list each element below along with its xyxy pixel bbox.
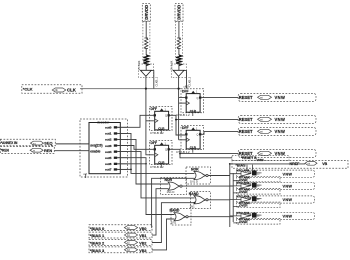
svg-text:DRVDD: DRVDD [144,5,149,20]
svg-text:clk: clk [55,88,59,92]
wire column2 to buffer [178,65,180,71]
resistor R4 (column2 dark zigzag) [176,55,182,66]
junction column2 on clock bus [178,88,180,90]
wire bias row lead-in [230,163,252,165]
wire out2 to G2 upper input [117,139,168,184]
wire column2 vertical [178,21,180,38]
svg-text:out0: out0 [105,126,112,130]
svg-text:VB3: VB3 [139,249,146,253]
svg-text:rst: rst [260,97,263,100]
wire RESET B branch from row4 jog [180,154,232,158]
net label *BIAS1 row [89,232,152,238]
svg-text:CTR-B 1.2: CTR-B 1.2 [150,165,164,169]
wire G2 output to switch bus [182,185,233,187]
svg-text:VB: VB [322,162,327,166]
wire G3 lower input riser [152,203,195,243]
wire column1 feedback loop [151,71,153,89]
junction G3 lower input [194,202,196,204]
wire clock bus y=88.6 [80,88,181,90]
svg-text:NAND: NAND [189,192,199,196]
svg-text:*BIAS 3: *BIAS 3 [90,248,105,253]
flip-flop U5 (DFF left bottom) [150,141,173,169]
svg-text:1N1: 1N1 [190,205,196,209]
svg-text:Q: Q [197,97,199,100]
svg-text:out5: out5 [105,156,112,160]
wire G2 lower input riser [152,189,169,235]
svg-text:VB0: VB0 [139,227,146,231]
svg-text:CLK: CLK [67,87,77,92]
power column 2 : supply label DRVDD [175,4,183,22]
svg-text:REN: REN [44,148,52,153]
wire column1 vertical [145,21,147,38]
svg-text:VNW: VNW [283,215,293,219]
svg-text:VNW: VNW [283,185,293,189]
decoder pin out6 [105,162,128,166]
net label RESET row 1 [238,115,316,123]
wire switch bus vertical 2 [232,173,234,222]
svg-text:decoder: decoder [97,121,110,125]
svg-text:DFF: DFF [182,126,189,130]
svg-text:RESET: RESET [239,95,253,100]
svg-text:NOR: NOR [191,167,199,171]
svg-text:VNW: VNW [257,158,264,162]
wire column2 output down / branches to FF A and FF C [179,76,187,140]
svg-text:VNW: VNW [275,95,286,100]
wire out1 to G1 upper input [117,133,194,173]
gate NAND G4 [170,209,192,226]
svg-text:out1: out1 [105,132,112,136]
junction out7 on riser [130,169,132,171]
svg-text:*BIAS 2: *BIAS 2 [90,241,105,246]
svg-text:*BIAS 0: *BIAS 0 [90,226,105,231]
wire G1 lower input riser [152,178,195,227]
svg-text:*ANNEX IN: *ANNEX IN [1,141,18,145]
flip-flop U2 (DFF top right) [176,89,204,117]
svg-text:*REN: *REN [1,148,10,152]
net label RESET row 2 [238,127,316,135]
svg-text:*CLK: *CLK [23,87,33,92]
svg-text:seq(2:0): seq(2:0) [90,144,102,148]
gate NOR G2 [161,178,187,195]
wire G1 output to switch bus [208,175,230,177]
svg-text:out6: out6 [105,162,112,166]
svg-text:rst: rst [260,153,263,156]
junction row4 branch [179,153,181,155]
svg-text:out3: out3 [105,144,112,148]
decoder pin out0 [105,126,128,130]
svg-text:VNW: VNW [283,198,293,202]
wire G3 output to switch bus [208,199,230,201]
wire column1 output down to FF clocks [146,76,154,155]
svg-text:DRVDD: DRVDD [177,5,182,20]
svg-text:DFF: DFF [182,89,189,93]
svg-text:SEQ: SEQ [44,141,52,146]
wire out4 to G3 upper input [117,152,194,198]
svg-text:VNW: VNW [275,117,286,122]
net label mini row above BIAS [232,156,289,162]
power column 1 : supply label DRVDD [142,4,150,22]
svg-text:out7: out7 [105,168,112,172]
decoder pin out5 [105,156,128,160]
junction column1 on clock bus [145,88,147,90]
wire bias stub down 2 [251,165,253,171]
resistor R1 (column1 upper) [143,22,150,62]
wire column1 middle [145,48,147,55]
wire column2 feedback loop [184,71,186,89]
svg-text:*BIAS 1: *BIAS 1 [90,233,105,238]
decoder ref pin stub [85,174,87,178]
wire G4 output to switch bus [188,216,233,218]
wire column2 middle [178,48,180,55]
dashed enclosure column1 buffer [139,64,154,78]
svg-text:*RESET B: *RESET B [241,156,257,160]
gate NOR G1 [186,167,211,184]
decoder pin out3 [105,144,128,148]
svg-text:OVER: OVER [239,220,248,224]
svg-text:rst: rst [260,119,263,122]
svg-text:rst: rst [260,131,263,134]
net label REN input row [0,147,54,154]
flip-flop U3 (DFF left middle) [150,107,173,135]
wire out6 stub to riser [117,163,146,165]
net label *BIAS0 row [89,225,152,231]
wire bias stub down 1 [246,165,248,172]
wire FF U2 D input from column2 [179,102,187,104]
op-amp buffer A1 (column1 down triangle) [140,70,151,76]
svg-text:CTR-B 1.2: CTR-B 1.2 [176,113,190,117]
svg-text:DFF: DFF [151,107,158,111]
svg-text:1N1 D: 1N1 D [190,180,198,184]
svg-text:VB2: VB2 [139,242,146,246]
wire column1 to buffer [145,65,147,71]
wire FF U3 Q to FF U4 D and RESET row 1 [170,115,238,135]
gate NAND G3 [189,192,211,209]
svg-text:ref: ref [84,172,87,176]
svg-text:Q: Q [165,149,167,152]
dashed enclosure column2 buffer [171,64,186,78]
svg-text:RESET: RESET [239,129,253,134]
wire out0 to FF U3 D [117,115,153,127]
resistor R2 (column1 dark zigzag) [143,55,149,66]
wire out3 to FF U5 D [117,146,153,150]
svg-text:CLR: CLR [190,146,197,150]
junction bias row bus [229,163,231,165]
svg-text:CTR-B 1.2: CTR-B 1.2 [150,131,164,135]
wire switch bus vertical 1 [229,164,231,227]
svg-text:out4: out4 [105,150,112,154]
net label *BIAS2 row [89,240,152,246]
svg-text:OVER: OVER [239,190,248,194]
wire FF U5 Q to RESET row 3 [170,149,238,153]
switch SW4 (analog switch row 4) [230,211,315,224]
resistor R3 (column2 upper) [176,22,183,62]
svg-text:Q: Q [165,115,167,118]
wire G4 lower input riser [152,219,175,250]
wire ren to decoder [55,150,90,152]
decoder pin out4 [105,150,128,154]
net label BIAS row 5 [232,161,348,169]
wire FF U2 Q to RESET row 0 [201,97,238,99]
svg-text:VNW: VNW [283,172,293,176]
wire seq to decoder [56,143,89,145]
svg-text:enable: enable [90,149,100,153]
svg-text:2N 1.0K: 2N 1.0K [137,60,141,70]
switch SW3 (analog switch row 3) [230,195,315,208]
decoder U1 [80,119,128,177]
svg-text:2N 1.0K: 2N 1.0K [170,60,174,70]
net label SEQ input row [0,139,55,146]
decoder pin out7 [105,168,128,172]
op-amp buffer A2 (column2 down triangle) [173,70,184,76]
svg-text:1N1 D: 1N1 D [167,190,175,194]
switch SW1 (analog switch row 1) [230,169,315,182]
svg-text:VB1: VB1 [139,234,146,238]
net label RESET row 3 [238,149,316,157]
svg-text:NAND: NAND [170,209,180,213]
wire FF U4 Q to RESET row 2 [201,132,238,135]
net label RESET row 0 [238,93,316,101]
net label *BIAS3 row [89,247,152,253]
svg-text:OVER: OVER [239,204,248,208]
svg-text:RESET: RESET [239,117,253,122]
svg-text:VNW: VNW [275,129,286,134]
svg-text:1N1: 1N1 [171,221,177,225]
decoder pin out2 [105,138,128,142]
junction out6 riser [145,163,147,165]
switch SW2 (analog switch row 2) [230,181,315,194]
junction FF U3 Q branch [175,119,177,121]
wire out7 stub join [117,168,131,170]
svg-text:DFF: DFF [151,141,158,145]
svg-text:clk1x: clk1x [184,85,191,89]
svg-text:out2: out2 [105,138,112,142]
svg-text:CLR: CLR [190,109,197,113]
decoder pin out1 [105,132,128,136]
net label *CLK (left clock label group) [22,85,82,94]
flip-flop U4 (DFF right lower) [176,126,204,154]
wire out5 to G4 upper input [117,158,174,215]
svg-text:Q: Q [197,134,199,137]
svg-text:CLKB_1: CLKB_1 [155,76,159,86]
